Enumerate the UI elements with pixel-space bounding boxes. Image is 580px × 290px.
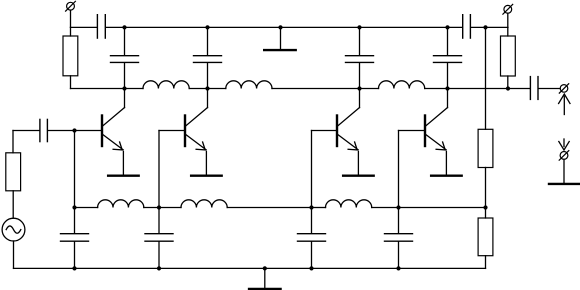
capacitor C4 (shunt node 2) (194, 27, 222, 88)
resistor R5 (bias lower) (478, 218, 493, 256)
wire port P1 to top rail (70, 10, 72, 27)
wire top rail right (448, 26, 463, 28)
node base line 3 (309, 205, 313, 209)
node collector 2 (205, 86, 209, 90)
wire bottom rail (399, 267, 486, 269)
node base line 2 (157, 205, 161, 209)
wire top rail to node (106, 26, 125, 28)
wire input column down (12, 131, 14, 153)
ground (Q4 emitter) (431, 175, 462, 177)
wire bottom rail (14, 267, 75, 269)
wire collector line seg (448, 88, 509, 90)
wire bottom rail (75, 267, 160, 269)
wire bottom rail (265, 267, 312, 269)
node dots (72, 25, 510, 270)
wire input corner (13, 130, 39, 132)
ground (Q1 emitter) (108, 175, 139, 177)
transistor Q1 (75, 89, 125, 175)
ground (bottom center) (249, 268, 281, 289)
node top rail bias (483, 25, 487, 29)
inductor L5 (181, 200, 227, 208)
wire base node 4 down (398, 131, 400, 208)
ground (Q2 emitter) (191, 175, 222, 177)
node bottom rail 3 (309, 266, 313, 270)
wire base line seg (75, 207, 98, 209)
port terminal P1 (top left) (66, 1, 76, 11)
capacitor C2 (series, top-right) (463, 15, 471, 38)
wire P4 to ground (563, 159, 565, 182)
node bottom rail 1 (72, 266, 76, 270)
ground (bottom right) (549, 183, 579, 185)
wire top rail to port column (471, 26, 508, 28)
transistor Q4 (399, 89, 448, 175)
node top rail 3 (357, 25, 361, 29)
transistor Q3 (312, 89, 360, 175)
port terminal P4 (bottom right) (559, 151, 569, 161)
node top rail 4 (445, 25, 449, 29)
node bottom rail 2 (157, 266, 161, 270)
capacitor C12 (shunt base node 4) (385, 208, 413, 269)
node base line bias (483, 205, 487, 209)
capacitor C9 (shunt base node 1) (61, 208, 89, 269)
wire base line node down (485, 208, 487, 219)
wire base line seg (159, 207, 181, 209)
ac source V1 (2, 218, 25, 268)
wire top rail (208, 26, 281, 28)
wire base line seg (372, 207, 399, 209)
wire output cap to port (539, 88, 561, 90)
node top rail 2 (205, 25, 209, 29)
capacitor C8 (input coupling) (40, 119, 48, 141)
transistor Q2 (159, 89, 208, 175)
arrow (output, pointing up) (559, 94, 570, 115)
wire bottom rail (159, 267, 265, 269)
wire base line seg (144, 207, 159, 209)
node bottom rail 4 (396, 266, 400, 270)
ground (Q3 emitter) (343, 175, 374, 177)
resistor R1 (top left termination) (63, 27, 78, 88)
wire base node 1 down (74, 131, 76, 208)
node collector out (506, 86, 510, 90)
node collector 1 (122, 86, 126, 90)
port terminal P2 (top right) (503, 4, 513, 14)
inductor L4 (98, 200, 144, 208)
wire collector line to output cap (508, 88, 530, 90)
wire collector line seg (425, 88, 448, 90)
inductor L1 (143, 81, 189, 89)
wire base line seg (227, 207, 311, 209)
wire top rail (360, 26, 448, 28)
ground (top center) (264, 27, 296, 50)
wire base node 3 down (311, 131, 313, 208)
node top rail 1 (122, 25, 126, 29)
resistor R4 (bias upper) (478, 129, 493, 167)
inductor L3 (379, 81, 425, 89)
wire R4 to base line (485, 168, 487, 208)
capacitor C10 (shunt base node 2) (145, 208, 173, 269)
inductor L6 (326, 200, 372, 208)
wire bottom rail (312, 267, 399, 269)
wire top rail (281, 26, 360, 28)
wire collector line seg (208, 88, 226, 90)
wire collector line start (71, 88, 125, 90)
node top rail gnd (278, 25, 282, 29)
capacitor C7 (output coupling) (530, 77, 538, 100)
node collector 3 (357, 86, 361, 90)
wire top rail (125, 26, 208, 28)
capacitor C5 (shunt node 3) (346, 27, 374, 88)
node base 1 (72, 128, 76, 132)
wire R5 to bottom rail (485, 256, 487, 269)
wire collector line seg (272, 88, 360, 90)
wire base line end (399, 207, 486, 209)
resistor R2 (top right termination) (501, 36, 516, 89)
wire bias column (from top rail node) (485, 27, 487, 129)
resistor R3 (source impedance) (6, 153, 21, 218)
wire top rail left segment (71, 26, 97, 28)
wire base line seg (312, 207, 326, 209)
capacitor C11 (shunt base node 3) (298, 208, 326, 269)
arrow (bottom right, pointing down) (559, 139, 569, 150)
port terminal P3 (output) (559, 84, 568, 93)
wire base node 2 down (158, 131, 160, 208)
node base line 4 (396, 205, 400, 209)
wire collector line seg (360, 88, 379, 90)
inductor L2 (226, 81, 272, 89)
wire input cap to base node (48, 130, 75, 132)
node bottom rail gnd (263, 266, 267, 270)
wire collector line seg (189, 88, 207, 90)
wire collector line seg (125, 88, 144, 90)
wire port P2 down (507, 13, 509, 36)
capacitor C3 (shunt node 1) (111, 27, 139, 88)
capacitor C6 (shunt node 4) (434, 27, 462, 88)
node collector 4 (445, 86, 449, 90)
node base line 1 (72, 205, 76, 209)
capacitor C1 (series, top-left) (97, 15, 105, 38)
